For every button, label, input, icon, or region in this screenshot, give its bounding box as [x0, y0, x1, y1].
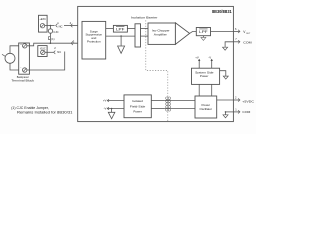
wire mid input pin3	[27, 41, 78, 45]
EXC terminal box top	[39, 15, 48, 32]
svg-text:+V: +V	[195, 56, 199, 60]
svg-text:CJC: CJC	[53, 30, 58, 34]
isolation barrier dashed line	[146, 20, 168, 121]
Vout pin arrow	[233, 30, 240, 33]
svg-text:Remains Installed for 8B30/31: Remains Installed for 8B30/31	[17, 110, 73, 114]
COM pin arrow	[233, 40, 240, 43]
wire through coils	[165, 100, 171, 102]
svg-text:8B30/8B31: 8B30/8B31	[212, 9, 232, 14]
jumper symbol	[49, 37, 51, 40]
COM bottom wire and ground	[223, 111, 233, 118]
svg-text:-V: -V	[104, 107, 107, 111]
svg-text:+EXC: +EXC	[39, 18, 46, 21]
+V arrow system side	[198, 59, 200, 68]
LPF1 box	[113, 25, 127, 32]
ground below LPF2	[201, 36, 206, 41]
svg-text:LPF: LPF	[116, 28, 124, 32]
wire LPF2 to Vout pin	[211, 30, 234, 32]
wire source top to terminal block	[10, 46, 19, 54]
module outline 8B30/8B31	[78, 6, 234, 121]
svg-text:Amplifier: Amplifier	[154, 32, 167, 36]
CJC branch	[48, 26, 52, 44]
backpanel terminal block	[19, 43, 30, 74]
signal transformer box	[135, 24, 141, 47]
svg-text:+V: +V	[103, 99, 107, 103]
isolated field side power box	[124, 95, 151, 118]
ground right of system power	[220, 71, 229, 79]
svg-text:NC: NC	[59, 25, 63, 29]
wire bottom loop	[27, 52, 65, 71]
svg-text:COM: COM	[243, 40, 252, 44]
wires transformer to iso-chopper	[141, 27, 149, 29]
wire LPF1 to transformer	[127, 27, 135, 29]
svg-text:-: -	[20, 66, 21, 70]
svg-text:-V: -V	[208, 56, 211, 60]
iso-chopper amplifier box	[148, 23, 175, 44]
terminal circle top	[23, 44, 27, 48]
svg-text:Terminal Block: Terminal Block	[11, 78, 34, 82]
COM bottom pin arrow	[233, 110, 240, 113]
+V arrow field side	[107, 99, 124, 102]
output amplifier triangle	[175, 23, 189, 45]
svg-text:OUT: OUT	[246, 33, 251, 35]
LPF2 box	[196, 28, 210, 36]
power transformer wires right	[171, 100, 195, 102]
EXC NC stub	[45, 51, 55, 54]
svg-text:COM: COM	[242, 110, 250, 114]
wire surge to LPF1	[106, 27, 114, 29]
source circle	[2, 53, 15, 63]
ground below field power	[108, 108, 115, 119]
wire source bottom to terminal block	[10, 63, 19, 70]
wires system power to oscillator	[198, 84, 200, 96]
terminal circle bottom	[23, 68, 27, 72]
svg-text:LPF: LPF	[199, 30, 207, 34]
-V arrow field side	[107, 107, 124, 110]
+5VDC pin arrow	[233, 98, 240, 101]
svg-text:Isolation Barrier: Isolation Barrier	[131, 16, 157, 20]
EXC terminal box bottom	[38, 46, 47, 57]
+5VDC wire	[217, 99, 234, 101]
svg-text:(1): (1)	[51, 37, 54, 41]
power transformer wires left	[151, 100, 165, 102]
wire surge lower to transformer	[106, 35, 135, 37]
wire top input pin4	[45, 24, 78, 28]
ground stub below LPF1	[118, 36, 125, 53]
svg-text:Power: Power	[133, 109, 142, 113]
power oscillator box	[195, 96, 217, 118]
wire amp to LPF2	[190, 32, 197, 34]
system side power box	[192, 68, 220, 84]
-V arrow system side	[211, 59, 213, 68]
svg-text:+5VDC: +5VDC	[242, 100, 254, 104]
svg-text:Isolated: Isolated	[132, 99, 143, 103]
COM out wire and ground	[223, 42, 234, 50]
svg-text:Power: Power	[200, 74, 209, 78]
power transformer coils	[166, 97, 171, 111]
svg-text:Field-Side: Field-Side	[130, 104, 146, 108]
surge suppression box	[82, 21, 106, 59]
svg-text:Protection: Protection	[87, 39, 101, 43]
svg-text:NC: NC	[57, 50, 61, 54]
svg-text:Oscillator: Oscillator	[200, 107, 213, 111]
